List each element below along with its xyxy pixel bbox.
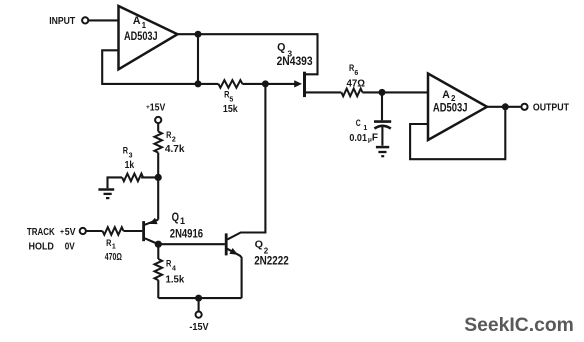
- wire R4 node down to resistor: [157, 244, 159, 259]
- wire R3 left to ground: [108, 177, 123, 188]
- wire -15V stub: [198, 298, 200, 311]
- wire R2 to node: [157, 153, 159, 178]
- node INPUT terminal: [82, 17, 88, 23]
- resistor R2: [154, 132, 162, 153]
- node junction dot -15V: [195, 295, 202, 302]
- svg-text:+: +: [60, 229, 64, 236]
- svg-text:A: A: [133, 15, 141, 27]
- ground below C1: [376, 146, 389, 149]
- resistor R5: [218, 80, 242, 88]
- transistor Q1 collector diagonal: [145, 238, 159, 244]
- wire A2 output: [487, 106, 521, 108]
- transistor Q3 gate arrow: [294, 80, 302, 87]
- op-amp A2: [428, 74, 487, 141]
- wire R1 to Q1 base: [124, 230, 143, 232]
- node junction dot R2/R3/Q1 emitter: [155, 174, 162, 181]
- node OUTPUT terminal: [521, 104, 527, 110]
- node junction dot A2 output: [502, 103, 509, 110]
- svg-text:4.7k: 4.7k: [165, 143, 185, 155]
- wire +15V to R2: [157, 123, 159, 131]
- transistor Q1 emitter diagonal: [145, 220, 159, 225]
- node +15V terminal: [155, 117, 161, 123]
- svg-text:5: 5: [229, 97, 233, 104]
- capacitor C1 bottom plate (curved): [374, 126, 390, 129]
- svg-text:Q: Q: [172, 210, 179, 224]
- node TRACK/HOLD terminal: [80, 228, 86, 234]
- wire R5 to node: [242, 83, 265, 85]
- wire R4 to bottom rail: [157, 280, 159, 298]
- svg-text:Q: Q: [255, 239, 263, 251]
- ground below R3: [98, 188, 114, 191]
- wire node to C1 top plate: [381, 92, 383, 120]
- svg-text:A: A: [442, 89, 450, 101]
- svg-text:OUTPUT: OUTPUT: [533, 102, 570, 114]
- svg-text:47Ω: 47Ω: [347, 78, 366, 90]
- svg-text:15k: 15k: [223, 104, 238, 115]
- svg-text:Q: Q: [277, 42, 286, 54]
- svg-text:4: 4: [172, 265, 176, 272]
- capacitor C1 top plate: [374, 120, 391, 123]
- node junction dot Q1 collector / R4 / Q2 base: [155, 241, 162, 248]
- svg-text:SeekIC.com: SeekIC.com: [464, 314, 574, 336]
- wire Q2 emitter down to bottom rail: [241, 259, 243, 298]
- transistor Q3 bar: [303, 72, 306, 97]
- transistor Q1 bar: [142, 221, 145, 241]
- resistor R3: [122, 174, 143, 182]
- svg-text:1: 1: [142, 21, 147, 30]
- wire C1 to ground: [381, 127, 383, 146]
- svg-text:2N4393: 2N4393: [277, 56, 313, 68]
- svg-text:15V: 15V: [150, 103, 166, 114]
- svg-text:-15V: -15V: [189, 321, 208, 333]
- transistor Q2 bar: [225, 233, 228, 255]
- wire Q2 collector up to R5 node: [227, 84, 265, 240]
- svg-text:0.01: 0.01: [349, 133, 367, 144]
- resistor R4: [155, 259, 163, 280]
- svg-text:1: 1: [363, 125, 367, 132]
- svg-text:R: R: [166, 258, 172, 268]
- svg-text:INPUT: INPUT: [49, 15, 75, 27]
- svg-text:2N4916: 2N4916: [170, 227, 203, 241]
- svg-text:6: 6: [354, 70, 358, 77]
- svg-text:5V: 5V: [65, 227, 76, 238]
- wire A1 feedback (output to inverting input): [102, 50, 198, 84]
- resistor R1: [103, 227, 124, 235]
- wire INPUT to A1 upper input: [89, 19, 119, 21]
- transistor Q2 emitter arrow (NPN, points outward): [229, 248, 238, 255]
- wire Q3 source to R6: [306, 91, 341, 93]
- svg-text:470Ω: 470Ω: [105, 252, 122, 263]
- node junction dot feedback rail: [195, 80, 202, 87]
- wire feedback rail to R5: [198, 83, 218, 85]
- wire vertical from output dot to feedback rail: [197, 34, 199, 84]
- wire A1 output to Q3 drain (top rail): [178, 34, 318, 74]
- resistor R6: [341, 89, 362, 97]
- node junction dot R5/Q3 gate: [262, 80, 269, 87]
- wire R6 to A2 upper input: [362, 91, 428, 93]
- transistor Q1 emitter arrow (PNP, points toward bar): [149, 218, 158, 224]
- svg-text:HOLD: HOLD: [29, 242, 54, 253]
- wire bottom rail: [158, 297, 241, 299]
- svg-text:2N2222: 2N2222: [254, 255, 289, 267]
- svg-text:F: F: [372, 133, 378, 144]
- wire A2 feedback: [410, 107, 505, 159]
- wire Q1 collector node to Q2 base: [158, 243, 225, 245]
- wire terminal to R1: [86, 230, 102, 232]
- svg-text:TRACK: TRACK: [27, 227, 55, 238]
- svg-text:1.5k: 1.5k: [166, 273, 185, 285]
- wire R3 right to node: [141, 176, 158, 178]
- wire node down to Q1 emitter: [157, 177, 159, 219]
- svg-text:1: 1: [180, 216, 185, 226]
- svg-text:AD503J: AD503J: [124, 31, 158, 43]
- transistor Q2 emitter diagonal: [226, 248, 241, 259]
- node junction dot R6/C1: [379, 89, 386, 96]
- svg-text:2: 2: [264, 246, 269, 255]
- svg-text:1: 1: [112, 244, 116, 251]
- svg-text:0V: 0V: [65, 242, 75, 253]
- svg-text:AD503J: AD503J: [433, 103, 468, 115]
- svg-text:C: C: [356, 118, 361, 128]
- op-amp A1: [119, 6, 178, 69]
- svg-text:1k: 1k: [125, 159, 135, 171]
- node -15V terminal: [196, 312, 202, 318]
- node junction dot A1 output: [195, 31, 202, 38]
- wire node to Q3 gate: [265, 83, 297, 85]
